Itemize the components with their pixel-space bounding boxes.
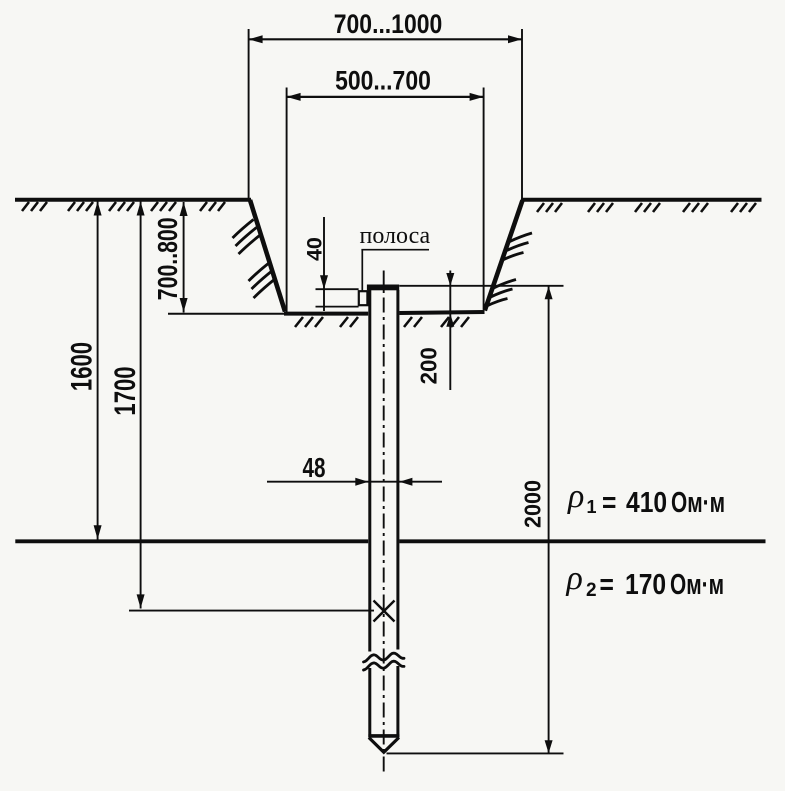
- svg-text:Ом·м: Ом·м: [671, 487, 725, 519]
- rod bottom bar: [368, 734, 399, 738]
- ground surface left: [15, 198, 251, 202]
- rod right edge: [396, 290, 399, 650]
- svg-text:700...1000: 700...1000: [334, 9, 442, 39]
- dim 700..800 line: [183, 202, 185, 313]
- dim 200 line: [449, 271, 451, 391]
- svg-text:=: =: [602, 486, 616, 518]
- 2000 arrows: [545, 286, 553, 299]
- 700..800 arrows: [180, 202, 188, 216]
- 700...1000 arrows: [249, 35, 263, 43]
- 500...700 arrows: [287, 93, 301, 101]
- polosa underline: [361, 249, 429, 251]
- arrowheads: [94, 35, 553, 753]
- svg-text:ρ: ρ: [567, 478, 584, 515]
- strip left side bottom edge: [316, 306, 359, 308]
- rod tip triangle: [369, 738, 399, 753]
- rod break wavy lines: [364, 653, 405, 662]
- clamp rectangle at rod top: [359, 291, 368, 305]
- svg-text:2000: 2000: [520, 480, 546, 528]
- trench left slope: [250, 200, 285, 312]
- dim 500...700 extension lines: [286, 88, 288, 315]
- trench bottom extension line (thin, for 700..800 dim): [168, 313, 284, 315]
- svg-text:48: 48: [303, 453, 326, 484]
- svg-text:500...700: 500...700: [335, 66, 431, 96]
- svg-text:полоса: полоса: [360, 223, 431, 249]
- svg-text:=: =: [600, 568, 614, 600]
- dim 2000 bottom extension line: [387, 752, 564, 754]
- svg-text:1700: 1700: [108, 366, 142, 415]
- rod left edge: [368, 290, 371, 652]
- dim 1700 line: [140, 202, 142, 609]
- rod center line (chain): [383, 271, 385, 776]
- svg-text:1: 1: [587, 497, 597, 517]
- polosa leader: [361, 250, 363, 291]
- trench right slope hatching: [487, 233, 533, 306]
- svg-text:Ом·м: Ом·м: [670, 569, 724, 601]
- dim 48 line: [267, 481, 442, 483]
- svg-text:ρ: ρ: [566, 560, 583, 597]
- dim 700...1000 extension lines: [248, 29, 250, 199]
- svg-text:170: 170: [625, 568, 666, 600]
- svg-text:410: 410: [626, 486, 667, 518]
- 40 arrow: [320, 275, 328, 289]
- trench left slope hatching: [233, 220, 276, 299]
- svg-text:700..800: 700..800: [152, 217, 184, 300]
- trench bottom thick left of rod: [284, 312, 368, 316]
- ground hatching right: [537, 203, 756, 212]
- dim 500...700 line: [287, 96, 484, 98]
- 1600 arrows: [94, 202, 102, 216]
- dim 1600 line: [97, 202, 99, 540]
- trench right slope: [485, 200, 523, 310]
- dim 700...1000 line: [249, 38, 522, 40]
- dim 40 line: [323, 217, 325, 311]
- svg-text:2: 2: [586, 580, 597, 601]
- trench bottom hatching: [295, 317, 469, 327]
- ground surface right: [521, 198, 762, 202]
- X mark on rod at 1700 level: [374, 601, 395, 622]
- dim 2000 line: [548, 286, 550, 753]
- svg-text:40: 40: [303, 237, 327, 261]
- svg-text:200: 200: [415, 347, 442, 384]
- soil layer boundary line: [15, 539, 368, 543]
- ground hatching left: [22, 202, 225, 211]
- trench bottom thick right of rod: [399, 312, 484, 313]
- strip (polosa) left side top edge: [316, 288, 359, 290]
- rod top cap (thick bar): [367, 285, 399, 291]
- 1700 arrows: [137, 202, 145, 216]
- dim 1700 extension line to X mark: [129, 610, 374, 612]
- 48 arrows: [355, 478, 368, 486]
- strip top edge right of rod (extension to 2000 dim): [399, 285, 563, 287]
- 200 arrows: [446, 273, 454, 286]
- svg-text:1600: 1600: [64, 342, 98, 391]
